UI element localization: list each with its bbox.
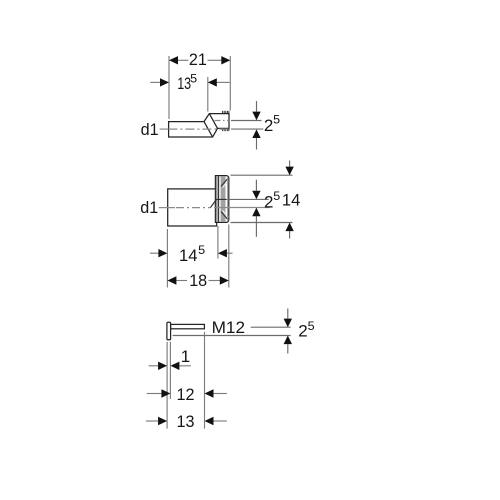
dimension 13.5 left arrow xyxy=(150,81,160,83)
svg-text:5: 5 xyxy=(273,191,280,203)
centerline flange axis on flange xyxy=(216,198,226,200)
dimension 1 left arrow xyxy=(149,365,159,367)
svg-text:18: 18 xyxy=(189,271,207,290)
arrowhead 2.5 up bottom xyxy=(284,336,292,345)
svg-text:2: 2 xyxy=(264,192,273,211)
flange inner left edge xyxy=(218,176,220,222)
extension flange bottom right xyxy=(231,222,293,224)
gasket chamfer white top xyxy=(223,181,229,188)
svg-text:5: 5 xyxy=(308,321,315,333)
svg-text:5: 5 xyxy=(190,74,197,86)
extension cylinder axis right xyxy=(214,207,270,209)
extension flange axis right xyxy=(226,198,269,200)
dimension 12 right arrow xyxy=(214,393,227,395)
cylinder body xyxy=(168,189,217,226)
svg-text:21: 21 xyxy=(189,50,207,69)
extension flange top right xyxy=(231,174,293,176)
dimension 14.5 right arrow xyxy=(226,252,232,254)
arrowhead 14 down xyxy=(285,167,293,176)
reference line shaft axis xyxy=(251,326,291,328)
thread ticks bottom of stub xyxy=(223,129,229,131)
svg-text:d1: d1 xyxy=(141,120,159,139)
extension line bottom left cylinder xyxy=(166,229,168,288)
centerline stub axis xyxy=(215,120,230,122)
svg-text:5: 5 xyxy=(273,115,280,127)
svg-text:2: 2 xyxy=(264,116,273,135)
extension line right of 13.5 (x=207.8) xyxy=(207,77,209,112)
leader d1 top xyxy=(160,128,169,130)
gasket hatch band xyxy=(221,176,226,221)
extension line C shaft end xyxy=(204,332,206,429)
svg-text:M12: M12 xyxy=(212,318,246,337)
svg-text:d1: d1 xyxy=(140,198,158,217)
dimension line 18 xyxy=(176,280,187,282)
dimension 1 right arrow xyxy=(179,365,190,367)
stud head xyxy=(167,322,171,340)
reference line offset axis xyxy=(173,335,291,337)
thread ticks top of stub xyxy=(223,111,229,113)
centerline tube axis xyxy=(168,128,229,130)
svg-text:13: 13 xyxy=(177,74,191,93)
arrowhead 2.5 up middle xyxy=(252,208,260,217)
arrowhead 21 left xyxy=(169,56,178,64)
svg-text:14: 14 xyxy=(282,191,301,210)
arrowhead 2.5 down xyxy=(252,112,260,121)
dimension line 21 xyxy=(178,59,189,61)
arrowhead 21 right xyxy=(221,56,230,64)
arrowhead 14 up xyxy=(285,223,293,232)
dimension 13 right arrow xyxy=(214,420,227,422)
svg-text:2: 2 xyxy=(298,321,307,340)
arrowhead 2.5 down middle xyxy=(252,191,260,200)
crease line 1 xyxy=(204,122,213,137)
arrowhead 2.5 up xyxy=(252,129,260,138)
extension line right of 21 (x=230.3) xyxy=(229,56,231,111)
svg-text:13: 13 xyxy=(177,412,195,431)
arrowhead 18 right xyxy=(220,276,229,284)
arrowhead 18 left xyxy=(167,276,176,284)
svg-text:12: 12 xyxy=(177,385,195,404)
centerline jog diagonal xyxy=(211,199,217,207)
extension tube axis right xyxy=(231,128,263,130)
extension line flange right bottom xyxy=(228,225,230,288)
dimension 13.5 right arrow xyxy=(216,81,230,83)
centerline cylinder axis xyxy=(176,207,211,209)
extension line A head left xyxy=(166,342,168,429)
crease line 2 xyxy=(209,114,217,129)
dimension 2.5 vertical line top view xyxy=(256,101,258,112)
svg-text:5: 5 xyxy=(198,245,205,257)
gasket chamfer dark top xyxy=(221,179,227,186)
connector body outline xyxy=(169,114,229,137)
leader d1 middle xyxy=(159,207,175,209)
flange outline xyxy=(215,176,228,223)
gasket right inner shade xyxy=(227,176,228,221)
stud shaft xyxy=(171,324,205,328)
dimension 2.5 vertical bottom xyxy=(287,309,289,319)
extension line flange left bottom xyxy=(217,226,219,259)
dimension 12 left arrow xyxy=(147,393,162,395)
arrowhead 2.5 down bottom xyxy=(284,319,292,328)
svg-text:1: 1 xyxy=(181,347,190,366)
svg-text:14: 14 xyxy=(179,246,198,265)
flange left rim (gray) xyxy=(216,176,218,222)
dimension 2.5 vertical middle xyxy=(255,180,257,191)
gasket chamfer dark bottom xyxy=(221,212,227,219)
extension stub axis right xyxy=(231,120,262,122)
dimension 13 left arrow xyxy=(146,420,158,422)
dimension 14 vertical line xyxy=(289,161,291,167)
dimension 14.5 left arrow xyxy=(150,252,159,254)
extension line left (x=169) xyxy=(168,56,170,119)
gasket chamfer white bottom xyxy=(223,211,229,218)
extension line B head right xyxy=(169,342,171,399)
